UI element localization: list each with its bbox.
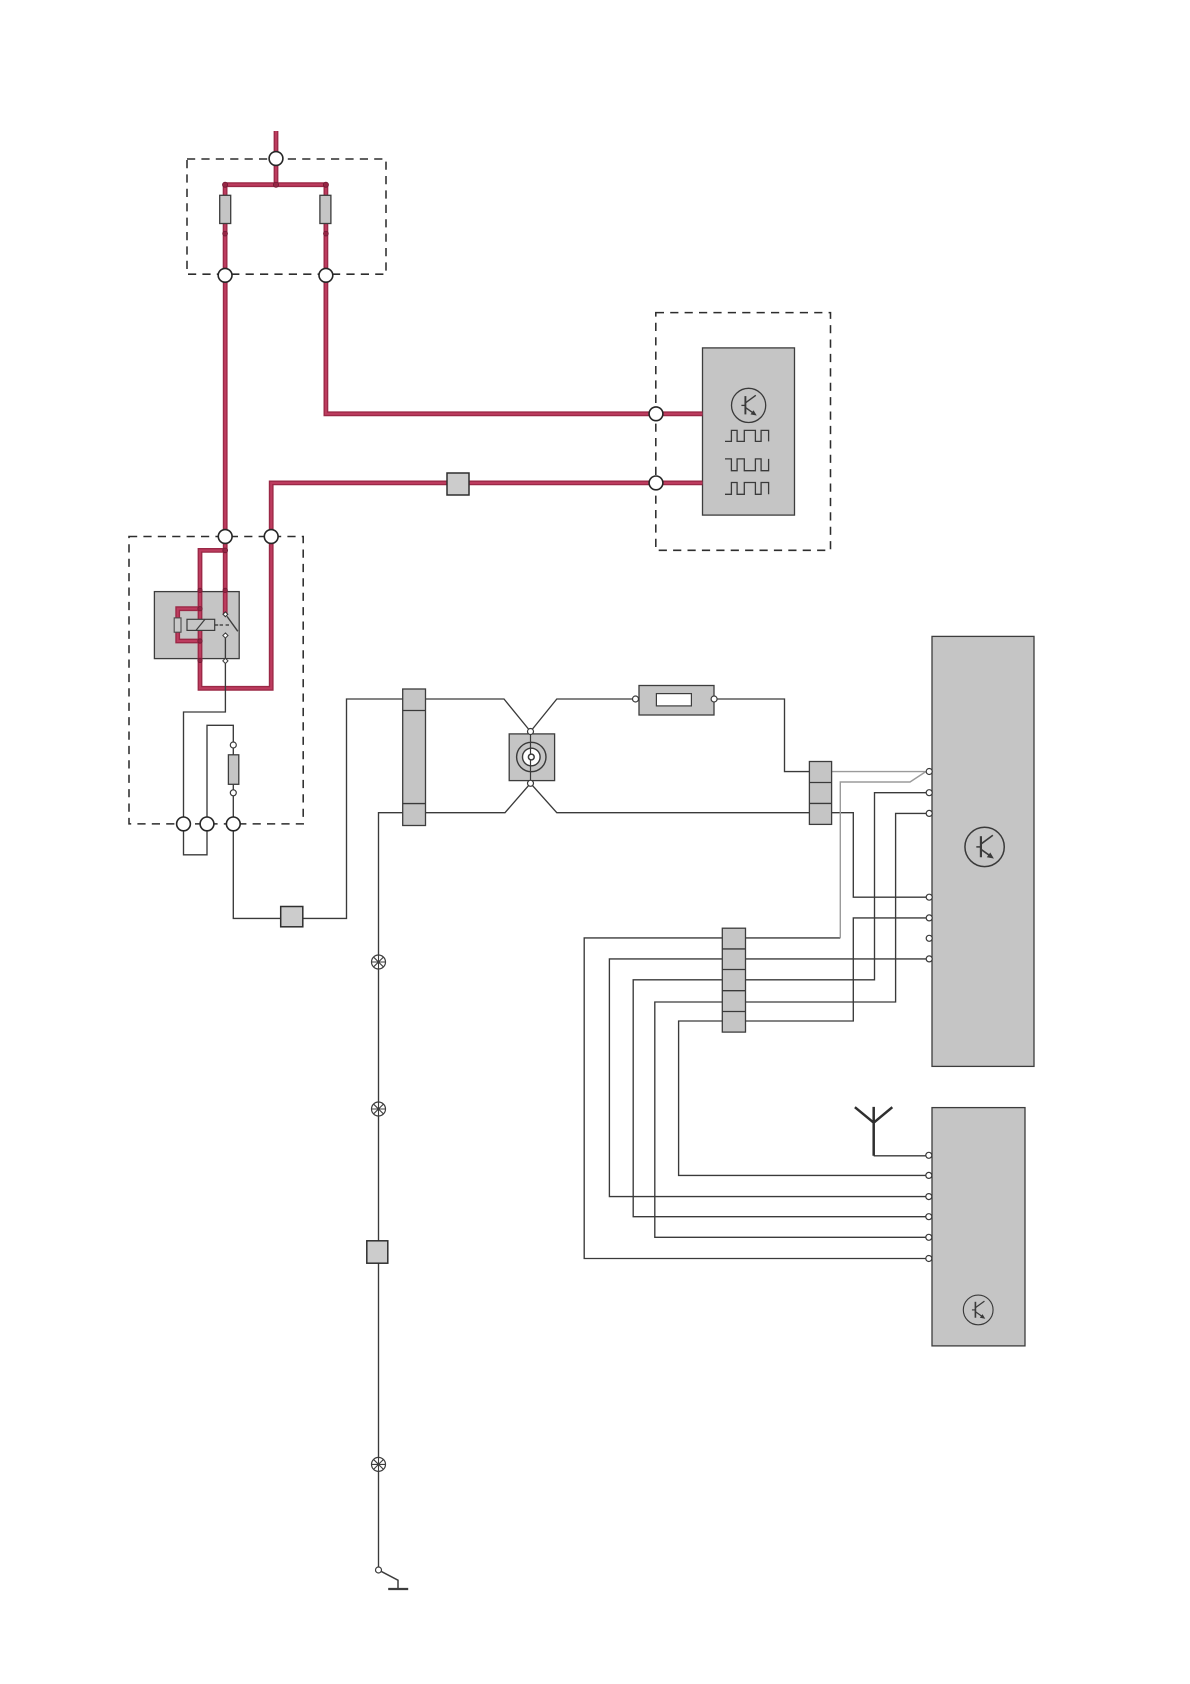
siren H1 pin top (528, 729, 534, 735)
fuse F1 (220, 195, 231, 223)
resistor R1 body (228, 755, 238, 785)
splice box S3 on door-switch wire (367, 1241, 388, 1263)
siren H1 rings (517, 742, 546, 771)
wire ECU pin 1 second branch (gray) (840, 772, 926, 938)
fuse F3 element (656, 694, 691, 706)
splice symbol on door-switch wire 2 (372, 1102, 386, 1116)
siren H1 body (509, 734, 554, 781)
ECU pin 1 (926, 769, 932, 775)
waveform icon 3 in module U1 (725, 483, 769, 495)
receiver pin C (926, 1194, 932, 1200)
wire connector C1 to siren top pin (426, 699, 531, 732)
wire antenna to receiver pin A (874, 1155, 927, 1157)
relay bottom pin diamond (223, 658, 228, 663)
wire through fuse F2 down to connector (red) (323, 185, 328, 276)
wire relay coil return to control module pin 2 (red) (271, 483, 702, 537)
connector circle relay out 1 (177, 817, 191, 831)
wire ECU pin 7 to receiver pin C (609, 959, 926, 1197)
wire through fuse F1 down to connector (red) (223, 185, 228, 276)
wire jumper between relay connector pins 1 and 2 (184, 824, 208, 855)
relay switch pivot diamond (223, 612, 228, 617)
wire fuse-box bus bar (red) (225, 182, 326, 187)
fuse F3 body (639, 686, 714, 716)
splice box S2 on module wire (447, 473, 469, 495)
wire red bundle center highlight overlay (275, 131, 277, 185)
ECU pin 4 (926, 894, 932, 900)
transistor icon control module U1 (732, 388, 766, 422)
junction dot shunt loop bottom (198, 639, 202, 643)
relay coil (187, 619, 215, 630)
ground bar (388, 1588, 408, 1590)
inline connector block C2 (5 cells) (722, 928, 745, 1032)
connector circle battery feed (269, 152, 283, 166)
fuse F3 pin right (711, 696, 717, 702)
receiver pin A (926, 1152, 932, 1158)
junction dot bus left (223, 182, 228, 187)
ECU pin 3 (926, 810, 932, 816)
receiver pin E (926, 1234, 932, 1240)
waveform icon 1 in module U1 (725, 430, 769, 441)
control module dashed enclosure (656, 313, 831, 551)
junction dot below fuse F1 (223, 231, 228, 236)
wire relay coil parallel-resistor loop (red) (178, 609, 200, 641)
ECU U2 body (932, 636, 1034, 1066)
junction dot bus right (323, 182, 328, 187)
fuse box dashed enclosure (187, 159, 386, 274)
junction dot relay feed branch (223, 548, 228, 553)
relay switch contact diamond (223, 633, 228, 638)
relay K1 body (154, 592, 239, 659)
relay dashed enclosure (129, 537, 303, 824)
receiver pin D (926, 1214, 932, 1220)
wire relay connector pin 2 to resistor R1 branch (207, 725, 233, 824)
relay coil shunt resistor (174, 618, 181, 632)
wire siren bottom pin to ECU pin 4 (531, 783, 927, 897)
inline connector block C3 (3 cells) (809, 762, 831, 825)
door switch arm (382, 1572, 399, 1589)
connector circle relay out 3 (226, 817, 240, 831)
connector circle module pin 2 (649, 476, 663, 490)
relay pin dot coil bottom (198, 658, 202, 662)
wire siren top pin to fuse F3 (531, 699, 636, 732)
relay actuating dashed link (215, 624, 219, 626)
wire ECU pin 5 to receiver pin B (679, 918, 927, 1176)
wire battery supply (red, top feed) (274, 131, 279, 185)
connector circle fuse box out left (218, 268, 232, 282)
transistor icon ECU U2 (965, 827, 1004, 866)
wire relay coil feed branch (red) (200, 537, 271, 689)
connector circle fuse box out right (319, 268, 333, 282)
relay switch arm (227, 616, 238, 631)
inline connector block C1 (3 cells) (403, 689, 426, 826)
junction dot bus center (273, 182, 278, 187)
receiver pin B (926, 1172, 932, 1178)
junction dot shunt loop top (198, 607, 202, 611)
wire ECU pin 1 branch to receiver pin F (584, 938, 926, 1259)
door switch contact circle (376, 1567, 382, 1573)
transistor icon receiver U3 (963, 1295, 993, 1325)
wire fuse F3 to connector C3 top cell (714, 699, 832, 772)
splice symbol on door-switch wire 3 (372, 1457, 386, 1471)
fuse F3 pin left (633, 696, 639, 702)
wire fused feed to control module pin 1 (red) (326, 275, 703, 414)
siren H1 pin bottom (528, 780, 534, 786)
waveform icon 2 in module U1 (725, 459, 769, 471)
junction dot below fuse F2 (324, 231, 329, 236)
connector circle relay out 2 (200, 817, 214, 831)
resistor R1 pin top (230, 742, 236, 748)
ECU pin 6 (926, 935, 932, 941)
wire relay switch output to connector pin 1 (184, 636, 226, 824)
resistor R1 pin bottom (230, 790, 236, 796)
splice symbol on door-switch wire 1 (372, 955, 386, 969)
control module U1 body (703, 348, 795, 515)
wire ECU pin 3 to receiver pin E (655, 813, 926, 1237)
connector circle relay in right (264, 530, 278, 544)
receiver pin F (926, 1256, 932, 1262)
connector circle relay in left (218, 530, 232, 544)
connector circle module pin 1 (649, 407, 663, 421)
antenna (855, 1107, 892, 1156)
wire fused feed to relay switch (red) (223, 275, 228, 614)
wire connector C3 to ECU pin 1 (gray) (832, 771, 926, 773)
ECU pin 2 (926, 790, 932, 796)
relay pin dot switch top (223, 588, 227, 592)
ECU pin 5 (926, 915, 932, 921)
fuse F2 (320, 195, 331, 223)
relay pin dot coil top (198, 588, 202, 592)
wire relay output via splice S1 to connector C1 top (233, 699, 402, 918)
wire ECU pin 2 to receiver pin D (633, 793, 926, 1217)
splice box S1 on relay output (281, 907, 303, 927)
receiver U3 body (932, 1108, 1025, 1346)
wire siren bottom pin to door switch (long left drop) (379, 783, 531, 1566)
ECU pin 7 (926, 956, 932, 962)
